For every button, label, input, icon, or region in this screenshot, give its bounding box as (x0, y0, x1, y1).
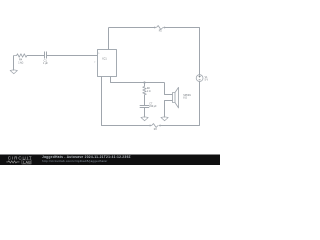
svg-text:5 V: 5 V (205, 80, 209, 82)
footer bar (0, 155, 220, 166)
svg-text:1 kΩ: 1 kΩ (18, 61, 23, 64)
wire (junction down to R2) (144, 83, 146, 87)
wire (C2 to ground) (144, 108, 146, 118)
label C1 value (43, 60, 48, 65)
CircuitLab logo (6, 155, 32, 164)
resistor R2 (143, 87, 146, 95)
wire (IC1 bottom pin 2 down and right) (111, 77, 165, 83)
ground (below speaker) (161, 117, 168, 121)
label R4 value (18, 58, 23, 64)
wire (down to speaker top lead) (165, 83, 173, 95)
svg-text:IC1: IC1 (103, 56, 108, 60)
resistor R3 (inline, bottom bus) (150, 124, 161, 128)
resistor R4 (14, 54, 28, 57)
label SPKR1 value (183, 95, 191, 100)
voltage source V1 (196, 75, 203, 82)
label C2 value (149, 104, 157, 109)
capacitor C1 (45, 52, 47, 59)
resistor R1 (inline, top bus) (154, 26, 165, 30)
ground (below C2) (141, 117, 148, 121)
svg-text:LAB: LAB (23, 160, 31, 164)
wire (R1 to top-right corner, down to V1) (165, 28, 200, 75)
label V1 value (205, 77, 209, 82)
svg-text:8 Ω: 8 Ω (183, 98, 187, 100)
wire (IC1 top pin up) (108, 28, 110, 50)
svg-text:http://circuitlab.com/c/mj4ka4: http://circuitlab.com/c/mj4ka45/jaggedha… (42, 159, 107, 163)
wire (C1 to IC1 left pin) (47, 55, 97, 57)
wire (speaker bottom lead to ground) (165, 101, 173, 118)
junction (node at R2 tap) (143, 81, 145, 83)
ground (top-left, below R4 left lead) (10, 56, 17, 74)
wire (top bus left of R1) (109, 27, 155, 29)
label R2 value (147, 88, 151, 93)
svg-text:220 μF: 220 μF (149, 106, 157, 108)
svg-text:1 Ω: 1 Ω (147, 91, 151, 93)
op-amp IC1 box (98, 50, 117, 77)
svg-text:1 μF: 1 μF (43, 62, 48, 65)
svg-text:5: 5 (98, 53, 99, 55)
svg-text:2: 2 (94, 61, 95, 63)
capacitor C2 (140, 106, 150, 108)
wire (R4 to C1) (27, 55, 44, 57)
speaker SPKR1 (173, 87, 179, 108)
wire (bottom bus left of R3, up to IC1 bottom pin 1) (102, 77, 150, 126)
wire (V1 to bottom-right corner, left to R3) (160, 82, 199, 126)
wire (R2 to C2) (144, 95, 146, 106)
